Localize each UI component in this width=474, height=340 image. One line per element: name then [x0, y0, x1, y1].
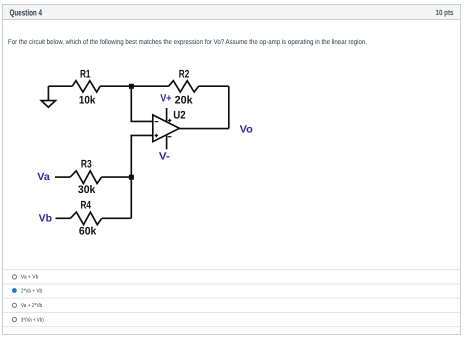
svg-text:R4: R4 [81, 199, 92, 211]
wire ground to R1 [48, 85, 72, 87]
op-amp V- supply mark [168, 136, 172, 138]
svg-text:Question 4: Question 4 [10, 8, 43, 18]
wire node A to inverting input [131, 86, 153, 121]
svg-text:60k: 60k [79, 226, 97, 238]
svg-text:U2: U2 [173, 109, 185, 121]
wire R1 to node A [100, 85, 168, 87]
svg-text:V+: V+ [160, 92, 171, 104]
wire R3 to node B [102, 176, 132, 178]
header bar [3, 5, 460, 19]
op-amp inverting input mark [155, 121, 159, 123]
node A junction [129, 84, 134, 89]
svg-text:For the circuit below, which o: For the circuit below, which of the foll… [8, 38, 367, 46]
resistor R2 [169, 81, 199, 92]
svg-text:R3: R3 [81, 158, 92, 170]
op-amp V+ supply pin [166, 108, 168, 122]
svg-text:30k: 30k [78, 184, 96, 196]
svg-text:3*(Va + Vb): 3*(Va + Vb) [21, 316, 44, 323]
svg-text:10 pts: 10 pts [436, 8, 454, 17]
op-amp noninverting input mark [155, 134, 159, 138]
svg-text:R2: R2 [179, 69, 190, 81]
svg-text:Vb: Vb [39, 212, 52, 224]
wire R2 to feedback corner [199, 85, 229, 87]
wire output [179, 128, 228, 130]
wire R4 to vertical [102, 217, 132, 219]
svg-text:Va + 2*Vb: Va + 2*Vb [21, 302, 42, 309]
svg-text:10k: 10k [79, 95, 96, 107]
svg-text:R1: R1 [80, 69, 91, 81]
svg-text:20k: 20k [175, 95, 194, 107]
svg-text:Va: Va [37, 171, 50, 183]
wire Va to R3 [55, 176, 70, 178]
svg-text:2*Va + Vb: 2*Va + Vb [21, 287, 42, 294]
ground [41, 86, 55, 107]
resistor R3 [70, 171, 101, 184]
op-amp V+ supply mark [168, 119, 171, 122]
wire feedback vertical [228, 86, 230, 128]
resistor R1 [72, 81, 100, 92]
wire noninverting input to node B [131, 135, 153, 218]
svg-text:Va + Vb: Va + Vb [21, 274, 39, 281]
resistor R4 [70, 212, 101, 225]
node B junction [129, 175, 134, 180]
svg-text:V-: V- [159, 150, 171, 162]
op-amp U2 [153, 115, 180, 142]
svg-text:Vo: Vo [240, 123, 253, 135]
op-amp V- supply pin [166, 135, 168, 150]
wire Vb to R4 [56, 217, 71, 219]
